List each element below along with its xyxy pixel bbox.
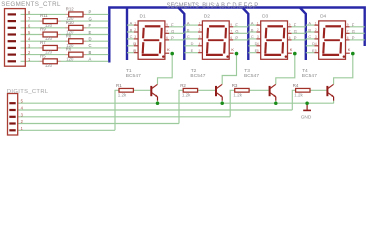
svg-text:DIGITS_CTRL: DIGITS_CTRL: [7, 89, 49, 95]
svg-text:9: 9: [289, 23, 291, 27]
svg-text:F: F: [89, 23, 92, 28]
svg-text:7: 7: [347, 30, 349, 34]
svg-text:6: 6: [230, 36, 232, 40]
svg-text:120: 120: [45, 63, 53, 68]
svg-text:BC547: BC547: [190, 73, 205, 79]
svg-text:R4: R4: [293, 83, 299, 88]
svg-text:120: 120: [45, 23, 53, 28]
svg-text:7: 7: [166, 30, 168, 34]
svg-text:C: C: [130, 34, 133, 39]
svg-text:K: K: [290, 47, 293, 52]
svg-text:D3: D3: [262, 14, 268, 20]
svg-text:2: 2: [199, 28, 201, 32]
svg-text:GND: GND: [301, 115, 312, 121]
svg-text:R1: R1: [116, 83, 122, 88]
svg-text:1.2k: 1.2k: [294, 92, 303, 97]
svg-text:6: 6: [289, 36, 291, 40]
svg-text:5: 5: [315, 49, 317, 53]
svg-text:T3: T3: [244, 68, 250, 74]
svg-text:4: 4: [257, 42, 259, 46]
svg-text:A: A: [251, 20, 254, 25]
svg-text:C: C: [251, 34, 254, 39]
svg-text:B: B: [89, 50, 92, 55]
svg-text:2: 2: [315, 28, 317, 32]
svg-text:B: B: [187, 27, 190, 32]
svg-text:1: 1: [257, 21, 259, 25]
svg-text:7: 7: [230, 30, 232, 34]
svg-text:3: 3: [315, 35, 317, 39]
svg-text:B: B: [251, 27, 254, 32]
svg-text:BC547: BC547: [302, 73, 317, 79]
svg-text:3: 3: [199, 35, 201, 39]
svg-text:6: 6: [347, 36, 349, 40]
svg-text:1: 1: [315, 21, 317, 25]
svg-text:B: B: [308, 27, 311, 32]
svg-text:B: B: [130, 27, 133, 32]
svg-text:E: E: [89, 30, 92, 35]
svg-text:A: A: [130, 20, 133, 25]
svg-text:R3: R3: [232, 83, 238, 88]
svg-text:P: P: [294, 36, 297, 41]
svg-text:120: 120: [66, 43, 74, 48]
svg-text:P: P: [235, 36, 238, 41]
svg-text:SEGMENTS_BUS:A,B,C,D,E,F,G,P: SEGMENTS_BUS:A,B,C,D,E,F,G,P: [167, 1, 259, 10]
svg-text:G: G: [89, 16, 92, 21]
svg-text:3: 3: [134, 35, 136, 39]
svg-text:1.2k: 1.2k: [233, 92, 242, 97]
svg-text:G: G: [235, 29, 238, 34]
svg-text:A: A: [308, 20, 311, 25]
svg-text:D: D: [191, 41, 194, 46]
svg-text:R2: R2: [180, 83, 186, 88]
svg-text:C: C: [89, 43, 92, 48]
svg-text:1.2k: 1.2k: [118, 92, 127, 97]
svg-text:120: 120: [45, 50, 53, 55]
svg-text:2: 2: [257, 28, 259, 32]
svg-text:A: A: [187, 20, 190, 25]
svg-text:T4: T4: [302, 68, 308, 74]
svg-text:4: 4: [199, 42, 201, 46]
svg-text:R11: R11: [40, 13, 48, 18]
svg-text:BC547: BC547: [126, 73, 141, 79]
svg-text:P: P: [171, 36, 174, 41]
svg-text:D4: D4: [320, 14, 326, 20]
svg-text:1.2k: 1.2k: [182, 92, 191, 97]
svg-text:K: K: [348, 47, 351, 52]
svg-text:4: 4: [134, 42, 136, 46]
svg-text:6: 6: [166, 36, 168, 40]
svg-text:A: A: [89, 57, 92, 62]
svg-text:D2: D2: [204, 14, 210, 20]
svg-text:9: 9: [230, 23, 232, 27]
svg-text:G: G: [352, 29, 355, 34]
svg-text:3: 3: [257, 35, 259, 39]
svg-text:5: 5: [199, 49, 201, 53]
svg-text:9: 9: [347, 23, 349, 27]
svg-text:R12: R12: [66, 7, 74, 12]
svg-text:120: 120: [45, 36, 53, 41]
svg-text:1: 1: [134, 21, 136, 25]
svg-text:P: P: [89, 10, 92, 15]
svg-text:T2: T2: [191, 68, 197, 74]
svg-text:5: 5: [134, 49, 136, 53]
svg-text:P: P: [352, 36, 355, 41]
svg-text:120: 120: [66, 56, 74, 61]
svg-text:5: 5: [257, 49, 259, 53]
svg-text:1: 1: [199, 21, 201, 25]
svg-text:K: K: [231, 47, 234, 52]
svg-text:4: 4: [315, 42, 317, 46]
svg-text:G: G: [294, 29, 297, 34]
svg-text:C: C: [308, 34, 311, 39]
svg-text:T1: T1: [126, 68, 132, 74]
svg-text:D1: D1: [140, 14, 146, 20]
svg-text:9: 9: [166, 23, 168, 27]
svg-text:E: E: [191, 48, 194, 53]
svg-text:G: G: [171, 29, 174, 34]
svg-text:7: 7: [289, 30, 291, 34]
svg-text:D: D: [89, 37, 92, 42]
svg-text:120: 120: [66, 30, 74, 35]
svg-text:BC547: BC547: [244, 73, 259, 79]
svg-text:SEGMENTS_CTRL: SEGMENTS_CTRL: [1, 1, 61, 8]
svg-text:K: K: [167, 47, 170, 52]
svg-text:C: C: [187, 34, 190, 39]
svg-text:2: 2: [134, 28, 136, 32]
svg-text:120: 120: [66, 16, 74, 21]
